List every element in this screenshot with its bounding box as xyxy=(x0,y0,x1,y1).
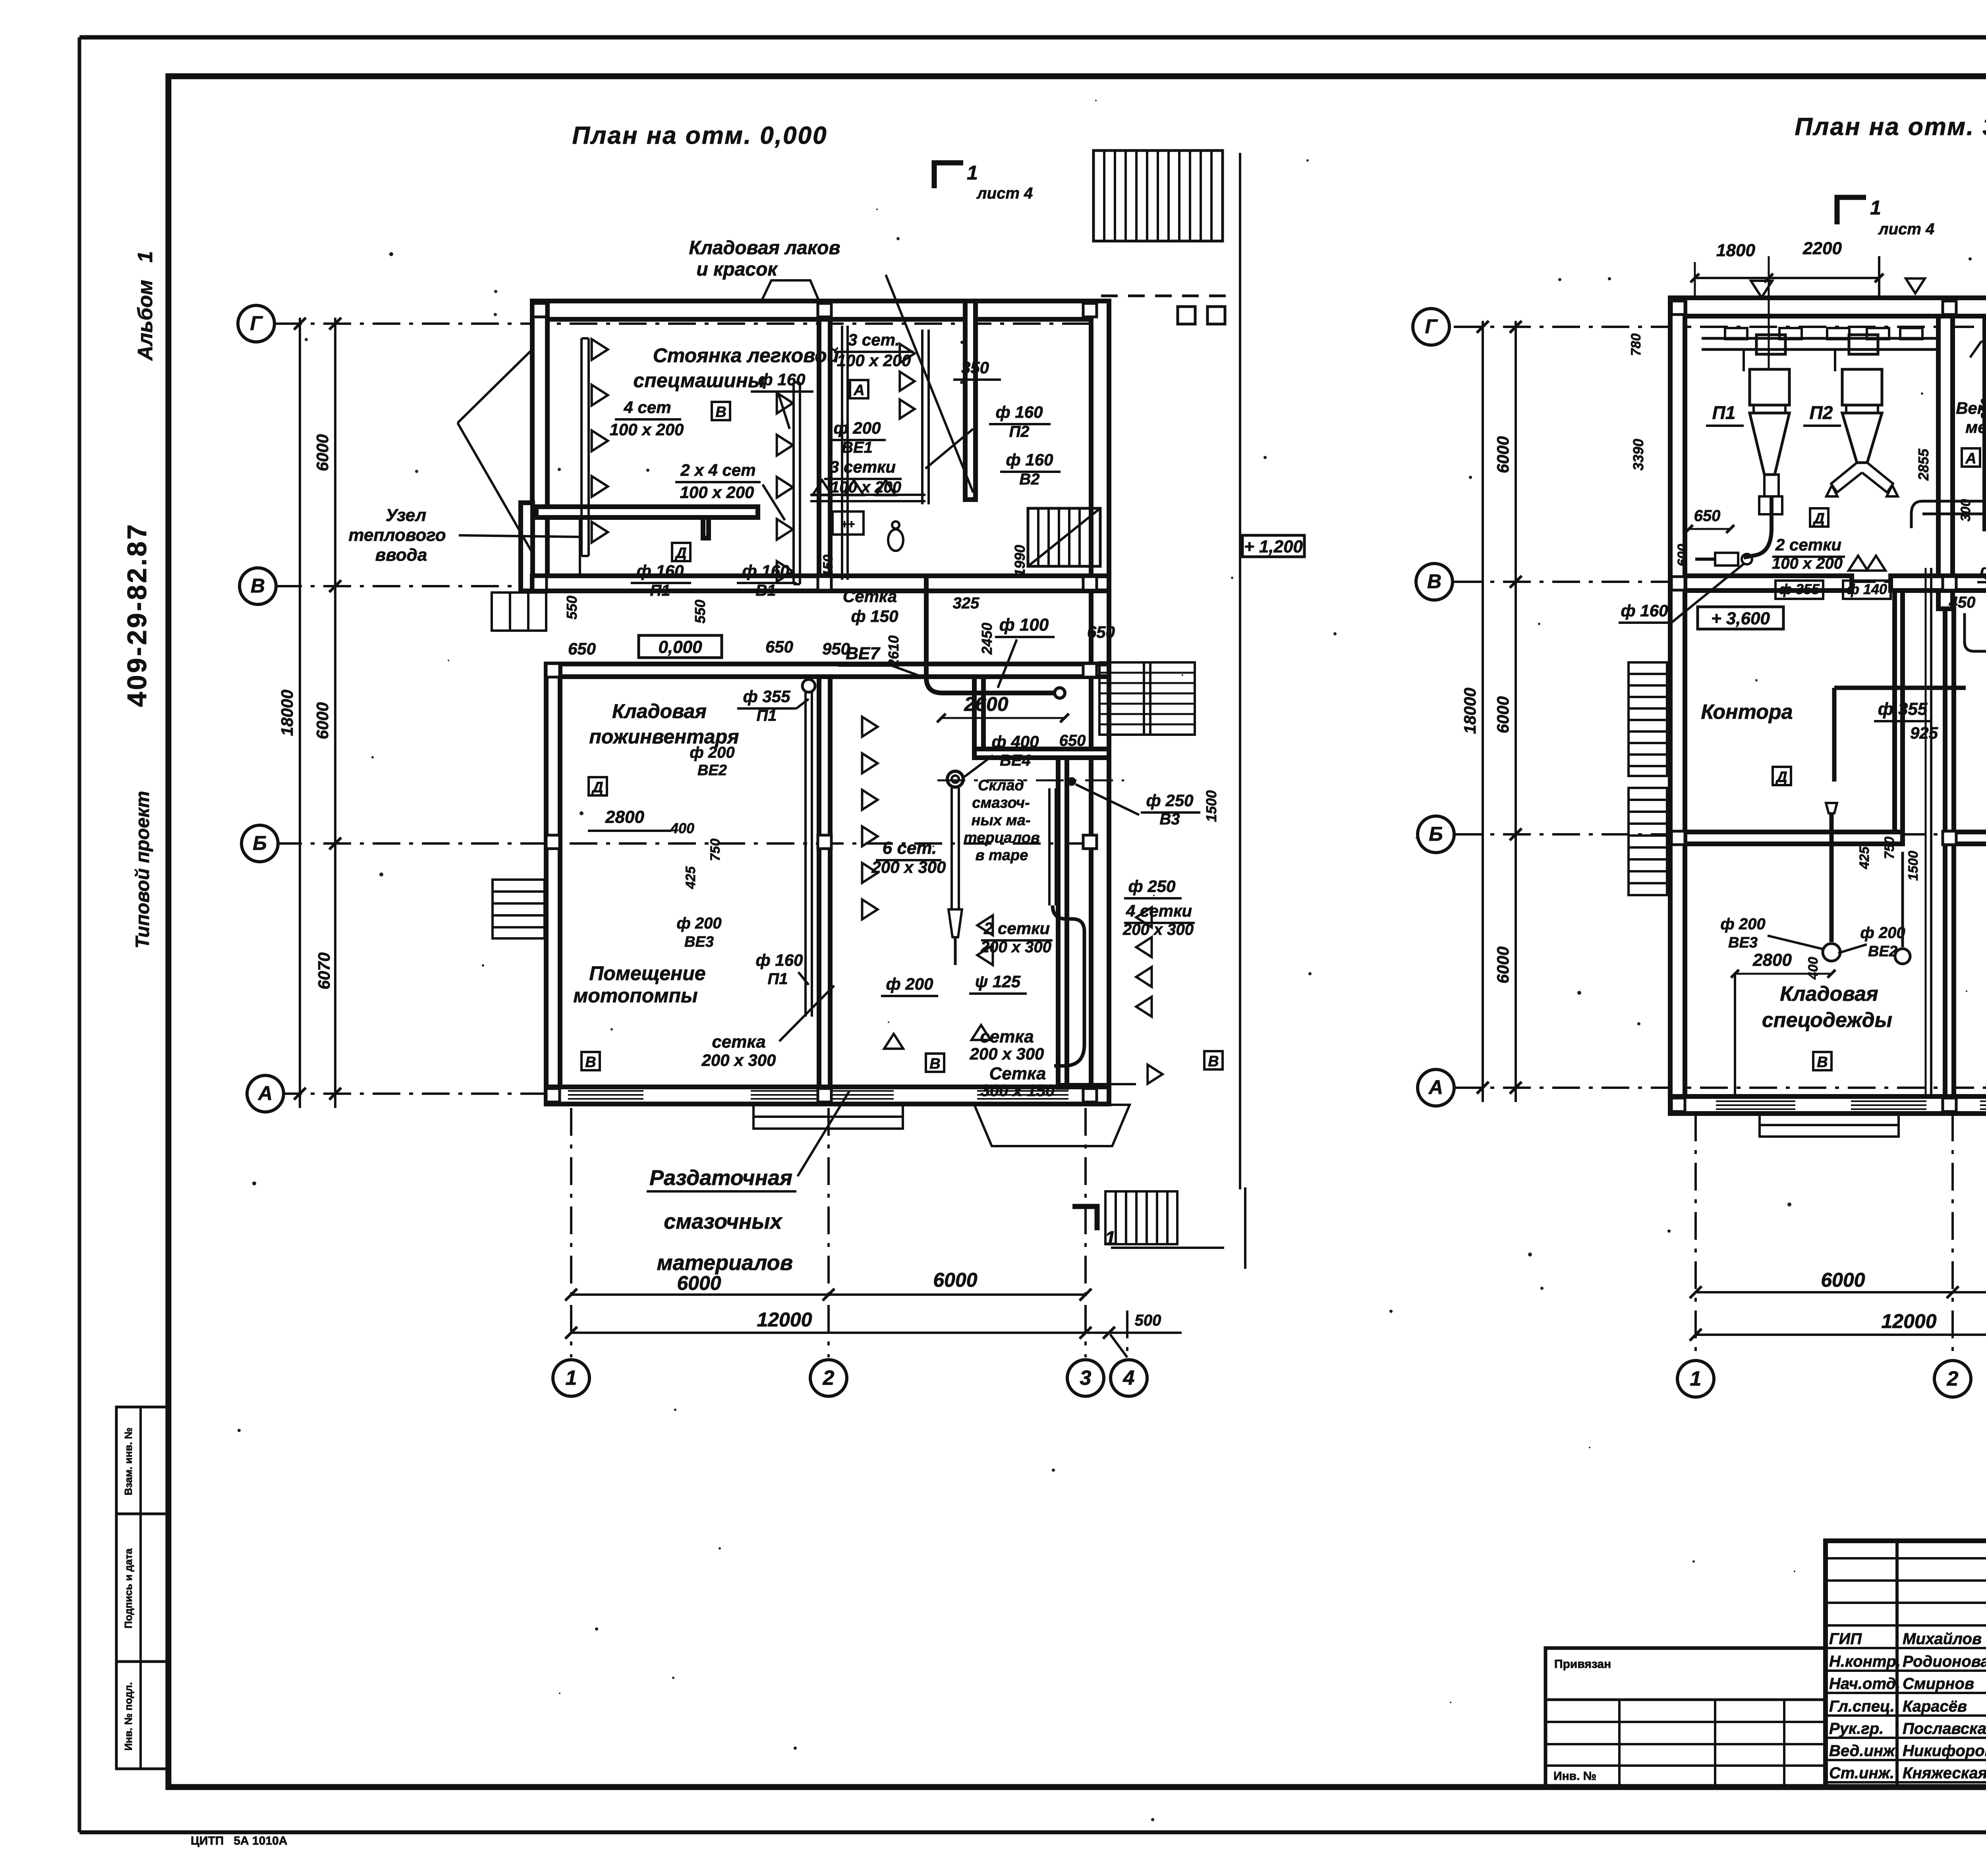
svg-text:3 сет.: 3 сет. xyxy=(848,330,900,349)
svg-text:325: 325 xyxy=(953,594,979,612)
svg-text:100 х 200: 100 х 200 xyxy=(837,351,911,370)
svg-text:6000: 6000 xyxy=(1493,946,1512,983)
svg-text:Вентка-: Вентка- xyxy=(1956,399,1986,417)
svg-text:0,000: 0,000 xyxy=(658,637,702,657)
svg-text:ных ма-: ных ма- xyxy=(972,812,1031,829)
svg-text:2800: 2800 xyxy=(1752,950,1792,970)
svg-text:лист 4: лист 4 xyxy=(976,185,1033,202)
svg-text:териалов: териалов xyxy=(964,830,1040,846)
svg-text:750: 750 xyxy=(708,839,723,861)
svg-text:Г: Г xyxy=(250,312,263,334)
svg-text:100 х 200: 100 х 200 xyxy=(680,483,754,502)
svg-text:ввода: ввода xyxy=(375,545,427,565)
svg-text:6000: 6000 xyxy=(1493,436,1512,473)
svg-text:ф 100: ф 100 xyxy=(999,615,1049,635)
svg-text:12000: 12000 xyxy=(1881,1310,1936,1332)
svg-text:ф 160: ф 160 xyxy=(742,562,790,580)
svg-text:ВЕ7: ВЕ7 xyxy=(846,644,881,663)
svg-text:925: 925 xyxy=(1910,724,1938,742)
svg-text:2800: 2800 xyxy=(605,807,644,827)
svg-text:сетка: сетка xyxy=(980,1027,1034,1046)
svg-text:В: В xyxy=(929,1056,940,1072)
svg-text:П1: П1 xyxy=(650,582,670,599)
svg-text:В: В xyxy=(1817,1054,1828,1071)
svg-text:сетка: сетка xyxy=(712,1032,765,1052)
svg-text:ф 200: ф 200 xyxy=(886,975,933,993)
svg-text:425: 425 xyxy=(683,866,698,890)
svg-text:400: 400 xyxy=(1806,957,1821,980)
svg-text:2: 2 xyxy=(1947,1367,1959,1390)
svg-text:300 х 150: 300 х 150 xyxy=(981,1081,1055,1100)
svg-text:Д: Д xyxy=(674,545,686,562)
svg-text:ф 400: ф 400 xyxy=(992,732,1039,751)
svg-text:++: ++ xyxy=(841,518,855,531)
svg-text:В3: В3 xyxy=(1159,811,1180,828)
svg-text:ГИП: ГИП xyxy=(1829,1630,1862,1648)
svg-text:18000: 18000 xyxy=(278,690,296,736)
svg-text:В2: В2 xyxy=(1019,471,1039,488)
svg-text:ф 250: ф 250 xyxy=(1146,791,1194,810)
svg-text:Гл.спец.: Гл.спец. xyxy=(1829,1698,1895,1715)
svg-text:Сетка: Сетка xyxy=(989,1064,1046,1083)
svg-text:Рук.гр.: Рук.гр. xyxy=(1829,1720,1884,1737)
svg-text:ф 160: ф 160 xyxy=(758,370,806,389)
svg-text:Сетка: Сетка xyxy=(843,587,897,606)
svg-text:4: 4 xyxy=(1123,1366,1135,1390)
svg-text:Д: Д xyxy=(1775,769,1787,786)
svg-text:Михайлов: Михайлов xyxy=(1903,1630,1982,1648)
svg-text:6000: 6000 xyxy=(313,434,332,471)
svg-text:350: 350 xyxy=(961,358,989,377)
svg-text:Привязан: Привязан xyxy=(1554,1658,1611,1671)
svg-text:650: 650 xyxy=(1059,732,1086,749)
svg-text:Д: Д xyxy=(591,779,603,796)
svg-text:Раздаточная: Раздаточная xyxy=(649,1166,792,1190)
svg-text:В: В xyxy=(1427,570,1441,593)
svg-text:В: В xyxy=(251,575,265,597)
svg-text:650: 650 xyxy=(1087,623,1115,641)
svg-text:Ст.инж.: Ст.инж. xyxy=(1829,1764,1894,1782)
svg-text:150: 150 xyxy=(821,555,836,577)
svg-text:1990: 1990 xyxy=(1012,545,1028,577)
svg-text:200 х 300: 200 х 300 xyxy=(871,858,946,876)
svg-text:Нач.отд.: Нач.отд. xyxy=(1829,1675,1900,1693)
svg-text:2610: 2610 xyxy=(885,635,902,668)
svg-text:Типовой проект: Типовой проект xyxy=(132,791,153,949)
svg-text:ВЕ4: ВЕ4 xyxy=(1000,752,1031,769)
svg-text:1: 1 xyxy=(1690,1367,1702,1390)
svg-text:1500: 1500 xyxy=(1203,790,1219,822)
svg-text:в таре: в таре xyxy=(976,847,1028,864)
svg-text:А: А xyxy=(853,382,864,399)
svg-text:100 х 200: 100 х 200 xyxy=(610,420,684,439)
svg-text:В: В xyxy=(1208,1053,1219,1070)
svg-text:П2: П2 xyxy=(1810,402,1833,423)
svg-text:Кладовая: Кладовая xyxy=(1780,982,1878,1006)
svg-text:200 х 300: 200 х 300 xyxy=(970,1044,1044,1063)
svg-text:425: 425 xyxy=(1857,846,1872,870)
svg-text:200 х 300: 200 х 300 xyxy=(980,938,1051,956)
svg-text:2200: 2200 xyxy=(1802,239,1842,258)
svg-text:ф 355: ф 355 xyxy=(743,687,791,706)
svg-text:смазочных: смазочных xyxy=(664,1210,782,1233)
svg-text:ψ 125: ψ 125 xyxy=(975,972,1021,991)
svg-text:Инв. №: Инв. № xyxy=(1553,1770,1596,1783)
svg-text:+ 1,200: + 1,200 xyxy=(1244,537,1303,556)
svg-text:ф 160: ф 160 xyxy=(1006,450,1053,469)
svg-text:ВЕ3: ВЕ3 xyxy=(684,934,714,950)
svg-text:ф 355: ф 355 xyxy=(1878,699,1928,719)
svg-text:550: 550 xyxy=(564,596,580,620)
svg-text:П1: П1 xyxy=(767,970,788,988)
svg-text:ф 355: ф 355 xyxy=(1779,581,1820,597)
svg-text:780: 780 xyxy=(1629,334,1644,356)
svg-text:6000: 6000 xyxy=(1493,696,1512,733)
svg-text:смазоч-: смазоч- xyxy=(972,795,1030,811)
svg-text:200 х 300: 200 х 300 xyxy=(701,1051,776,1069)
svg-text:6070: 6070 xyxy=(315,952,333,989)
svg-text:лист 4: лист 4 xyxy=(1878,220,1935,238)
svg-text:мотопомпы: мотопомпы xyxy=(573,984,697,1007)
svg-text:1800: 1800 xyxy=(1716,241,1755,260)
svg-text:ф 200: ф 200 xyxy=(1720,915,1765,933)
svg-text:2 х 4 сет: 2 х 4 сет xyxy=(680,461,755,479)
svg-text:Княжеская: Княжеская xyxy=(1903,1764,1986,1782)
svg-text:4 сетки: 4 сетки xyxy=(1126,901,1192,920)
svg-text:ф 200: ф 200 xyxy=(834,419,881,437)
svg-text:Смирнов: Смирнов xyxy=(1903,1675,1974,1693)
svg-text:2: 2 xyxy=(823,1366,835,1390)
svg-text:ф 200: ф 200 xyxy=(690,744,734,761)
svg-text:Г: Г xyxy=(1425,315,1438,338)
svg-text:А: А xyxy=(257,1082,272,1104)
svg-text:1: 1 xyxy=(967,162,978,184)
svg-text:300: 300 xyxy=(1958,499,1973,522)
svg-text:6000: 6000 xyxy=(677,1272,721,1294)
svg-text:+ 3,600: + 3,600 xyxy=(1711,609,1770,628)
svg-text:18000: 18000 xyxy=(1461,688,1479,734)
svg-text:Карасёв: Карасёв xyxy=(1903,1698,1967,1715)
svg-text:В1: В1 xyxy=(755,582,776,599)
svg-text:2 сетки: 2 сетки xyxy=(983,919,1050,938)
svg-text:Подпись и дата: Подпись и дата xyxy=(122,1548,134,1629)
svg-text:450: 450 xyxy=(1949,594,1976,611)
svg-text:950: 950 xyxy=(822,639,850,658)
svg-text:3 сетки: 3 сетки xyxy=(830,457,896,476)
svg-text:ф 250: ф 250 xyxy=(1128,877,1176,896)
svg-text:ВЕ3: ВЕ3 xyxy=(1728,934,1758,951)
svg-text:Кладовая лаков: Кладовая лаков xyxy=(689,237,840,259)
svg-text:6000: 6000 xyxy=(313,702,332,739)
svg-text:Б: Б xyxy=(1429,823,1443,845)
svg-text:В: В xyxy=(715,404,726,421)
svg-text:650: 650 xyxy=(765,637,793,656)
svg-text:409-29-82.87: 409-29-82.87 xyxy=(122,523,152,707)
svg-text:650: 650 xyxy=(1694,507,1721,525)
svg-text:1500: 1500 xyxy=(1906,851,1921,881)
svg-text:В: В xyxy=(585,1054,596,1071)
svg-text:ф 150: ф 150 xyxy=(851,607,898,625)
svg-text:Помещение: Помещение xyxy=(589,962,705,984)
svg-text:200 х 300: 200 х 300 xyxy=(1122,921,1194,938)
svg-text:спецмашины: спецмашины xyxy=(633,369,765,392)
svg-text:Вед.инж.: Вед.инж. xyxy=(1829,1742,1899,1760)
svg-text:Д: Д xyxy=(1812,510,1824,527)
svg-text:Узел: Узел xyxy=(386,506,426,525)
svg-text:Взам. инв. №: Взам. инв. № xyxy=(122,1428,134,1496)
svg-text:ф 160: ф 160 xyxy=(637,562,684,580)
svg-text:550: 550 xyxy=(692,600,708,623)
svg-text:Контора: Контора xyxy=(1701,701,1793,724)
svg-text:План на отм. 0,000: План на отм. 0,000 xyxy=(572,122,827,149)
svg-text:теплового: теплового xyxy=(348,525,446,545)
svg-text:6000: 6000 xyxy=(1821,1269,1865,1291)
svg-text:2600: 2600 xyxy=(964,693,1008,715)
svg-text:Н.контр.: Н.контр. xyxy=(1829,1653,1901,1670)
svg-text:План на отм. 3,600: План на отм. 3,600 xyxy=(1795,113,1986,141)
svg-text:2 сетки: 2 сетки xyxy=(1775,535,1841,554)
svg-text:3: 3 xyxy=(1080,1366,1092,1390)
svg-text:П1: П1 xyxy=(1712,402,1736,423)
svg-text:Стоянка легковой: Стоянка легковой xyxy=(653,344,839,367)
svg-text:А: А xyxy=(1428,1076,1443,1098)
svg-text:Склад: Склад xyxy=(978,777,1024,794)
svg-text:и красок: и красок xyxy=(696,259,778,280)
svg-text:А: А xyxy=(1965,450,1976,467)
svg-text:ф 200: ф 200 xyxy=(676,915,721,932)
svg-text:ЦИТП 5А 1010А: ЦИТП 5А 1010А xyxy=(191,1834,287,1847)
svg-text:1: 1 xyxy=(566,1366,577,1390)
svg-text:12000: 12000 xyxy=(757,1309,812,1331)
svg-text:750: 750 xyxy=(1882,837,1897,859)
svg-text:ф 160: ф 160 xyxy=(1980,562,1986,579)
svg-text:Кладовая: Кладовая xyxy=(612,700,707,722)
svg-text:П1: П1 xyxy=(756,707,777,724)
svg-text:Родионова: Родионова xyxy=(1903,1653,1986,1670)
svg-text:4 сет: 4 сет xyxy=(623,398,671,417)
svg-text:2450: 2450 xyxy=(979,623,995,655)
svg-text:П2: П2 xyxy=(1009,423,1029,440)
svg-text:2855: 2855 xyxy=(1915,448,1932,481)
svg-text:мера: мера xyxy=(1965,418,1986,436)
svg-text:6000: 6000 xyxy=(933,1269,977,1291)
svg-text:100 х 200: 100 х 200 xyxy=(1772,555,1843,572)
svg-text:1: 1 xyxy=(1870,197,1881,219)
svg-text:ф 160: ф 160 xyxy=(996,403,1043,421)
svg-text:650: 650 xyxy=(568,639,596,658)
svg-text:спецодежды: спецодежды xyxy=(1762,1009,1892,1032)
svg-text:Инв. № подл.: Инв. № подл. xyxy=(122,1682,134,1751)
svg-text:материалов: материалов xyxy=(657,1251,793,1275)
svg-text:ВЕ2: ВЕ2 xyxy=(697,762,727,779)
svg-text:ВЕ1: ВЕ1 xyxy=(842,439,873,456)
svg-text:ВЕ2: ВЕ2 xyxy=(1868,943,1897,960)
svg-text:600: 600 xyxy=(1675,544,1690,567)
svg-text:ф 200: ф 200 xyxy=(1860,924,1905,942)
svg-text:100 х 200: 100 х 200 xyxy=(831,479,901,496)
svg-text:Никифорова: Никифорова xyxy=(1903,1742,1986,1760)
svg-text:Б: Б xyxy=(253,832,267,854)
svg-text:400: 400 xyxy=(670,820,694,836)
svg-text:Альбом 1: Альбом 1 xyxy=(134,251,157,361)
svg-text:ф 160: ф 160 xyxy=(756,951,803,969)
svg-text:6 сет.: 6 сет. xyxy=(883,838,937,858)
svg-text:3390: 3390 xyxy=(1630,439,1646,471)
svg-text:Пославская: Пославская xyxy=(1903,1720,1986,1737)
svg-text:500: 500 xyxy=(1135,1312,1161,1329)
svg-text:ф 140: ф 140 xyxy=(1847,581,1887,597)
svg-text:ф 160: ф 160 xyxy=(1621,601,1668,620)
